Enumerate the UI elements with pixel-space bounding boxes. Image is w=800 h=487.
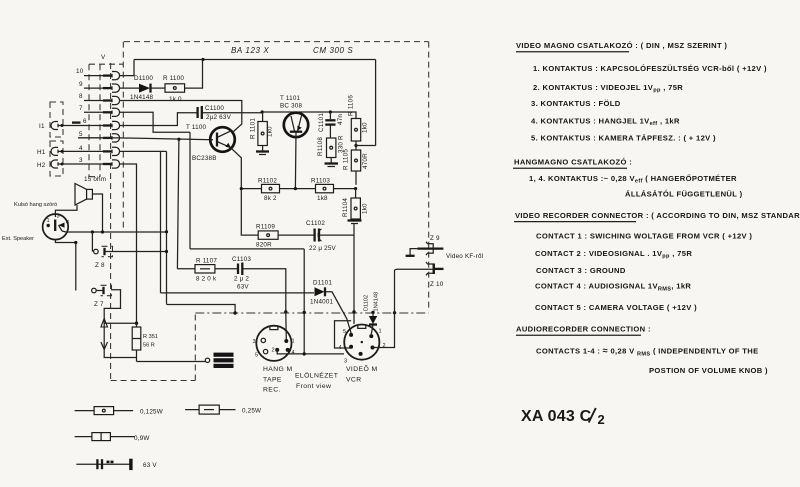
wire pin 6 from I1 junction [62, 125, 103, 127]
svg-text:Kulsó hang szóró: Kulsó hang szóró [14, 202, 57, 208]
svg-text:1. KONTAKTUS : KAPCSOLÓFESZÜLT: 1. KONTAKTUS : KAPCSOLÓFESZÜLTSÉG VCR-bő… [533, 64, 767, 73]
tape head symbol [205, 353, 233, 368]
wire arrows to R351 bottom row [104, 356, 136, 358]
wire DIN speaker lower to Z7 column [55, 240, 75, 291]
svg-text:4: 4 [66, 220, 69, 226]
wire pin 6 to C1100 branch [119, 113, 197, 126]
DIN connector VIDEO M (VCR) [344, 325, 379, 360]
svg-text:1: 1 [292, 339, 295, 345]
svg-text:HANG M: HANG M [263, 366, 293, 373]
svg-text:Video KF-ről: Video KF-ről [446, 253, 483, 260]
resistor R1100 [165, 84, 185, 92]
wire +12V drop from rail [375, 60, 377, 146]
contact Z9 [417, 242, 443, 255]
svg-text:Front view: Front view [296, 383, 331, 390]
diode D1101 1N4001 [315, 287, 326, 296]
svg-text:R 351: R 351 [143, 334, 158, 340]
svg-text:ÁLLÁSÁTÓL FÜGGETLENÜL ): ÁLLÁSÁTÓL FÜGGETLENÜL ) [625, 190, 743, 199]
svg-text:5. KONTAKTUS : KAMERA TÁPFESZ.: 5. KONTAKTUS : KAMERA TÁPFESZ. : ( + 12V… [531, 134, 716, 143]
node Z8 row [165, 250, 168, 253]
wire D1101 diagonal to VCR pin 5 [326, 292, 352, 333]
legend resistor 0.9W [75, 433, 135, 441]
wire R1100 up to rail [185, 60, 203, 89]
svg-text:D1101: D1101 [313, 280, 332, 287]
wire pin 5 stub [78, 137, 103, 139]
wire pin 4 drop [119, 150, 167, 152]
svg-text:TAPE: TAPE [263, 377, 282, 384]
svg-text:CONTACT 1 : SWICHING WOLTAGE F: CONTACT 1 : SWICHING WOLTAGE FROM VCR ( … [536, 232, 752, 241]
svg-text:VIDEÕ M: VIDEÕ M [346, 364, 378, 373]
DIN speaker pin labels [47, 214, 70, 227]
wire base node down to R1107 row [177, 139, 179, 269]
svg-text:63V: 63V [237, 284, 249, 291]
svg-text:C1102: C1102 [306, 220, 325, 227]
node R1101 top [261, 110, 264, 113]
wire R1107 column from base node [177, 268, 195, 270]
wire C1100 to base node rail [203, 112, 262, 114]
resistor R1104 1k0 [351, 189, 360, 220]
wire pin 3 from H2 junction [62, 163, 103, 165]
svg-text:V: V [101, 54, 106, 61]
resistor R1106 1k0 [351, 119, 360, 151]
connector V dashed outline [89, 63, 123, 381]
node speaker column [101, 230, 104, 233]
diode D1100 1N4148 [139, 84, 151, 93]
svg-text:2: 2 [598, 412, 605, 427]
wire D1100 to R1100 [151, 87, 165, 89]
wire ground column down to VCR pin 5 [353, 224, 355, 324]
wire HANG M pin2 to VCR pin3 [277, 350, 344, 354]
svg-text:Z 9: Z 9 [430, 235, 440, 242]
svg-text:470R: 470R [362, 153, 369, 169]
svg-text:1N4001: 1N4001 [310, 299, 334, 306]
ground stub at Z9 [406, 249, 418, 256]
node T1101 emitter row [294, 187, 297, 190]
svg-text:I1: I1 [39, 123, 45, 130]
wire pin 4 from H1 junction [62, 150, 103, 152]
transistor T1101 BC308 [284, 113, 308, 137]
node C1101 top [329, 110, 332, 113]
svg-text:CONTACT 3 : GROUND: CONTACT 3 : GROUND [536, 266, 626, 275]
node R1102 left [240, 187, 243, 190]
svg-text:ELÖLNÉZET: ELÖLNÉZET [295, 371, 338, 380]
diode D1102 1N4148 vertical [369, 312, 377, 334]
wire pin 9 stub [84, 87, 103, 89]
wire Z8 column [91, 232, 93, 252]
DIN connector HANG M (tape) [256, 326, 291, 361]
svg-text:D1100: D1100 [134, 75, 153, 82]
svg-text:0,125W: 0,125W [140, 409, 163, 416]
wire T1101 down to R1102/R1103 node [294, 133, 297, 189]
wire pin 8 to T1100 collector [119, 101, 242, 132]
bottom-left dashed enclosure [111, 313, 196, 381]
svg-text:VCR: VCR [346, 377, 362, 384]
node boundary x286 [284, 310, 287, 313]
svg-text:4: 4 [339, 345, 342, 351]
svg-text:0,25W: 0,25W [242, 408, 261, 415]
DIN connector ext speaker [43, 214, 69, 240]
capacitor C1102 22u 25V [315, 229, 322, 242]
ground under R1101 [256, 152, 269, 155]
svg-text:C1101: C1101 [318, 113, 325, 132]
capacitor C1101 47n [325, 112, 335, 138]
resistor R1101 [258, 112, 267, 151]
svg-text:2 μ 2: 2 μ 2 [234, 276, 249, 283]
wire R351 to tape head [137, 361, 206, 363]
resistor R1108 330R [327, 138, 336, 163]
wire speaker cone to DIN pin 3 [55, 205, 77, 217]
contact Z8 [94, 246, 113, 256]
svg-text:4: 4 [292, 350, 295, 356]
node audio bus at wire [303, 352, 306, 355]
ground under R1108 [325, 164, 339, 167]
wire pin 9 to D1100 [119, 87, 139, 89]
svg-text:Z 7: Z 7 [94, 301, 104, 308]
svg-text:R1102: R1102 [258, 178, 277, 185]
svg-text:0,9W: 0,9W [134, 435, 150, 442]
resistor R1107 820k [195, 265, 215, 273]
wire pin 7 drop to audio bus [189, 132, 191, 249]
node boundary x353 [352, 310, 355, 313]
wire C1103 to HANGM pin1 column [243, 269, 285, 312]
amplifier module dashed enclosure BA123X/CM300S [123, 42, 428, 310]
svg-text:BC238B: BC238B [192, 155, 217, 162]
svg-text:R 1100: R 1100 [163, 75, 184, 82]
svg-text:Z 10: Z 10 [430, 281, 444, 288]
svg-text:1k8: 1k8 [317, 195, 328, 202]
svg-text:R 1105: R 1105 [343, 149, 350, 170]
wire base rail over to R1106 [262, 112, 356, 119]
wire R1109 to C1102 [278, 234, 314, 236]
I/H contacts dashed boxes [50, 102, 63, 176]
capacitor C1103 2u2 63V [238, 263, 242, 276]
resistor R1102 8k2 [262, 184, 280, 192]
node lower speaker wire [74, 241, 77, 244]
node boundary x373 [371, 311, 374, 314]
legend resistor 0.25W [185, 405, 235, 414]
contact H1 [51, 147, 64, 155]
wire pin 4 vertical x166 [166, 151, 168, 303]
surge arrester arrows [101, 318, 108, 356]
dash-dot boundary line (bottom of module) [195, 312, 428, 314]
pin number labels 10,9,8,7,6,5,4,3 [76, 68, 87, 164]
node R351 top [135, 322, 138, 325]
capacitor C1100 2u2 63V [198, 106, 202, 119]
svg-text:VIDEO RECORDER CONNECTOR : ( A: VIDEO RECORDER CONNECTOR : ( ACCORDING T… [515, 211, 800, 220]
svg-text:2μ2 63V: 2μ2 63V [206, 114, 232, 121]
legend capacitor 63V [76, 459, 132, 470]
svg-text:8k 2: 8k 2 [264, 195, 277, 202]
wire HANGM column down [303, 249, 305, 354]
svg-text:8: 8 [79, 93, 83, 100]
wire x166 column bottom jog to boundary [167, 304, 236, 313]
wire speaker to audio node [92, 194, 102, 232]
svg-text:R 1106: R 1106 [348, 95, 355, 116]
svg-text:2. KONTAKTUS : VIDEOJEL 1Vpp ,: 2. KONTAKTUS : VIDEOJEL 1Vpp , 75R [533, 83, 683, 94]
svg-text:1: 1 [379, 329, 382, 335]
wire Z7 tail jog to arrows column [104, 290, 120, 318]
wire node to +12V drop [356, 145, 376, 147]
node R1106/R1105 [354, 144, 357, 147]
wire pin 10 stub [84, 75, 103, 77]
svg-text:5: 5 [255, 353, 258, 359]
wire audio line to D1101 [161, 292, 315, 294]
wire pin 3 drop to R351 [119, 164, 137, 323]
svg-text:C1100: C1100 [205, 105, 224, 112]
wire R1107 to C1103 [215, 268, 237, 270]
svg-text:6: 6 [83, 118, 87, 125]
node rail / R1100 [201, 58, 204, 61]
svg-text:Ext. Speaker: Ext. Speaker [2, 236, 34, 242]
legend resistor 0.125W [75, 407, 134, 415]
svg-text:R1108: R1108 [317, 137, 324, 156]
resistor R1105 470R [351, 150, 360, 185]
svg-text:BC 308: BC 308 [280, 103, 303, 110]
loudspeaker 15 ohm [75, 184, 92, 206]
shield box around VCR pins 5/4 [335, 321, 352, 348]
connector V pin contacts (pins 10,9,8,7,6,5,4,3) [103, 72, 120, 169]
wire pin 5 to T1100 base [78, 138, 213, 140]
VIDEO M pin labels [339, 329, 386, 365]
svg-text:H2: H2 [37, 162, 46, 169]
svg-text:BA 123 X: BA 123 X [231, 46, 269, 55]
resistor R1109 820R [258, 231, 278, 239]
svg-text:3: 3 [253, 339, 256, 345]
svg-text:R1103: R1103 [311, 178, 330, 185]
svg-text:AUDIORECORDER CONNECTION :: AUDIORECORDER CONNECTION : [516, 325, 651, 334]
wire R1102/R1103 row [241, 188, 355, 190]
ground under R1104 [348, 221, 362, 224]
svg-text:1k0: 1k0 [362, 203, 369, 214]
HANG M pin labels [253, 339, 295, 359]
svg-text:3: 3 [57, 214, 60, 220]
wire emitter column to R1109 [241, 189, 258, 236]
svg-text:22 μ 25V: 22 μ 25V [309, 245, 337, 252]
svg-text:VIDEO MAGNO CSATLAKOZÓ : ( DIN: VIDEO MAGNO CSATLAKOZÓ : ( DIN , MSZ SZE… [516, 41, 727, 50]
wire pin 4 vertical to audio line [160, 151, 162, 293]
svg-text:Z 8: Z 8 [95, 262, 105, 269]
svg-text:1k 0: 1k 0 [169, 96, 182, 103]
svg-text:1, 4. KONTAKTUS :~ 0,28 Veff (: 1, 4. KONTAKTUS :~ 0,28 Veff ( HANGERŐPO… [529, 174, 737, 185]
contact H2 [51, 160, 64, 168]
svg-text:CM 300 S: CM 300 S [313, 46, 353, 55]
node boundary x304 [303, 311, 306, 314]
wire pin 7 jog down then right [119, 112, 190, 132]
wire audio bus pin7 to HANGM column [190, 248, 304, 250]
svg-text:CONTACT 5 : CAMERA VOLTAGE ( +: CONTACT 5 : CAMERA VOLTAGE ( +12V ) [535, 303, 697, 312]
svg-text:T 1101: T 1101 [280, 95, 301, 102]
svg-text:9: 9 [79, 81, 83, 88]
pin 6 shield thick bar [72, 121, 81, 123]
node boundary x235 [233, 311, 236, 314]
svg-text:XA 043 C: XA 043 C [521, 408, 592, 425]
svg-text:3. KONTAKTUS : FÖLD: 3. KONTAKTUS : FÖLD [531, 99, 621, 108]
svg-text:820R: 820R [256, 242, 272, 249]
svg-text:1: 1 [47, 218, 50, 224]
contact I1 [51, 122, 64, 130]
svg-text:3: 3 [79, 157, 83, 164]
node speaker/Z8 drop [91, 230, 94, 233]
svg-text:HANGMAGNO CSATLAKOZÓ :: HANGMAGNO CSATLAKOZÓ : [514, 158, 632, 167]
svg-text:10: 10 [76, 68, 84, 75]
svg-text:R1109: R1109 [256, 224, 275, 231]
wire pin 8 stub [84, 100, 103, 102]
transistor T1100 BC238B [210, 127, 235, 152]
wire C1102 to ground column [320, 234, 354, 236]
svg-text:R1104: R1104 [342, 198, 349, 217]
svg-text:8 2 0 k: 8 2 0 k [196, 276, 217, 283]
wire pin1 drop to HANG M [285, 312, 288, 341]
wire Z8 to x166 column [113, 251, 167, 253]
svg-text:1N4148: 1N4148 [374, 292, 380, 312]
wire Z10 row [395, 268, 444, 271]
node base junction [177, 138, 180, 141]
wire pin 10 up to rail [119, 60, 134, 76]
svg-text:3: 3 [344, 359, 347, 365]
wire T1100 emitter down to R1102 [231, 148, 242, 189]
svg-text:7: 7 [79, 105, 83, 112]
svg-text:D1102: D1102 [364, 295, 370, 311]
svg-text:2: 2 [272, 348, 275, 354]
node boundary x394 [393, 311, 396, 314]
node R1104 top [354, 187, 357, 190]
wire +12V top rail [134, 59, 376, 61]
svg-text:4. KONTAKTUS : HANGJEL 1Veff ,: 4. KONTAKTUS : HANGJEL 1Veff , 1kR [531, 117, 680, 128]
svg-text:H1: H1 [37, 149, 46, 156]
svg-text:POSTION OF VOLUME KNOB ): POSTION OF VOLUME KNOB ) [649, 366, 768, 375]
contact Z7 [92, 285, 112, 295]
svg-text:1k0: 1k0 [362, 122, 369, 133]
svg-text:5: 5 [343, 329, 346, 335]
svg-text:1k0: 1k0 [267, 126, 274, 137]
resistor R1103 1k8 [316, 184, 334, 192]
svg-text:5: 5 [79, 131, 83, 138]
svg-text:R 1101: R 1101 [250, 118, 257, 139]
svg-text:63 V: 63 V [143, 462, 157, 469]
resistor R351 56R [132, 323, 141, 361]
wire VCR pin2 to Z10 column [373, 270, 395, 348]
svg-text:C1103: C1103 [232, 256, 251, 263]
svg-text:T 1100: T 1100 [186, 124, 207, 131]
wire DIN speaker to main audio wire [62, 231, 167, 232]
contact Z10 [426, 262, 444, 275]
svg-text:47n: 47n [337, 114, 344, 125]
svg-text:R 1107: R 1107 [196, 258, 217, 265]
svg-text:56 R: 56 R [143, 343, 155, 349]
svg-text:15 ohm: 15 ohm [84, 176, 106, 183]
node audio wire end [165, 230, 168, 233]
wire arrows tap to R351 top [104, 322, 136, 324]
svg-text:REC.: REC. [263, 387, 281, 394]
wire pin 7 stub [84, 111, 103, 113]
